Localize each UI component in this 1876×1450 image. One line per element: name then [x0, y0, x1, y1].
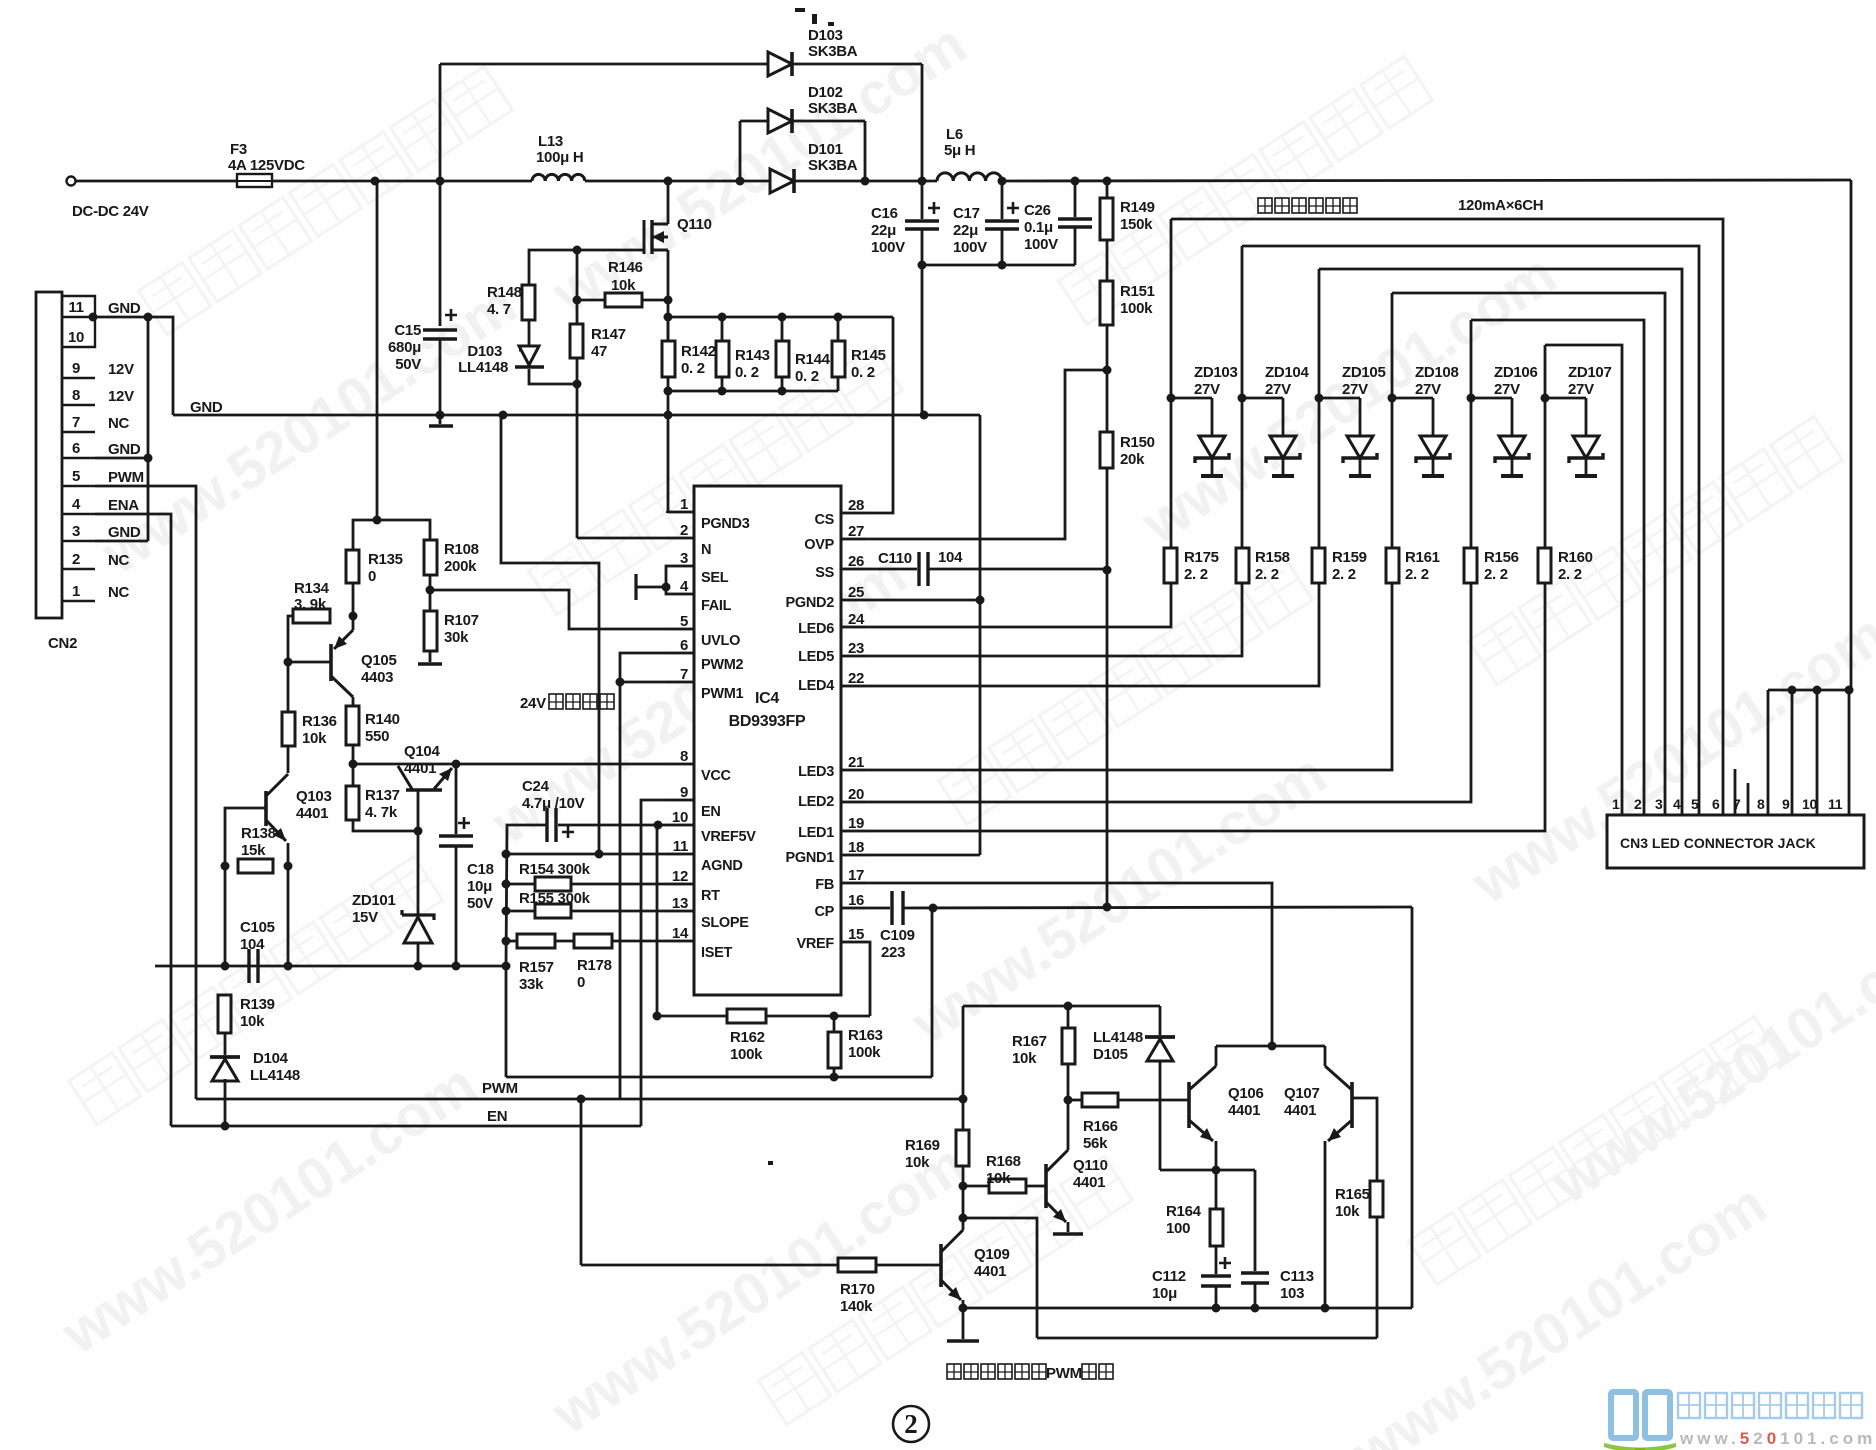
wire R142-R145 bottom rail: [668, 390, 838, 393]
wire comp bus up to CP: [931, 908, 934, 1077]
IC4 pin 11 tick: [666, 853, 694, 855]
junction / bus2 branch: [959, 1214, 968, 1223]
svg-text:FB: FB: [815, 877, 834, 893]
wire channel 2 loop (CN3 pin to ZD): [1242, 246, 1699, 815]
wire R159 to IC LED pin: [842, 583, 1319, 686]
wire C16/C17/C26 bottom rail: [922, 264, 1075, 267]
junction R138 right: [284, 862, 293, 871]
wire R142 top stub: [667, 317, 670, 341]
svg-text:2. 2: 2. 2: [1558, 566, 1582, 583]
svg-text:LED4: LED4: [798, 678, 834, 694]
IC4 pin 27 tick: [841, 538, 866, 540]
wire R146 left: [577, 299, 605, 302]
junction gate / R147 branch: [573, 246, 582, 255]
junction Q104 base / ZD101: [414, 827, 423, 836]
wire Q110 source down: [667, 250, 670, 341]
svg-text:ZD103: ZD103: [1194, 364, 1238, 381]
wire Q105 base: [288, 661, 331, 664]
wire R136 to Q103 collector: [287, 746, 290, 773]
wire top row to D105: [1159, 1006, 1162, 1035]
inductor L6: [937, 173, 1002, 181]
junction main rail / R149: [1103, 177, 1112, 186]
svg-text:23: 23: [848, 640, 864, 657]
junction main rail / Q110 drain: [664, 177, 673, 186]
wire sense rail to IC pin 1: [667, 391, 670, 512]
wire R175 to IC LED pin: [842, 583, 1171, 627]
wire R156 to IC LED pin: [842, 583, 1471, 802]
svg-text:CS: CS: [814, 512, 834, 528]
svg-text:SEL: SEL: [701, 570, 729, 586]
wire D103 to corner: [792, 63, 922, 66]
svg-text:20k: 20k: [1120, 451, 1145, 468]
CN3 pin 7 stub: [1734, 769, 1737, 815]
transistor Q110 4401 (NPN, lower): [1044, 1164, 1048, 1208]
svg-text:4401: 4401: [1284, 1102, 1316, 1119]
svg-text:21: 21: [848, 754, 864, 771]
svg-text:27: 27: [848, 523, 864, 540]
wire L13 to D101: [585, 180, 772, 183]
svg-text:22μ: 22μ: [953, 222, 978, 239]
svg-text:2: 2: [680, 522, 688, 539]
resistor R151 100k: [1100, 281, 1113, 325]
junction R167 top: [1064, 1002, 1073, 1011]
CN2 pin 8 tick: [62, 404, 95, 406]
svg-text:200k: 200k: [444, 558, 477, 575]
wire to IC pin 2 N: [577, 537, 694, 540]
svg-text:3. 9k: 3. 9k: [294, 596, 327, 613]
zener diode ZD108 27V: [1416, 436, 1450, 476]
svg-text:9: 9: [1782, 796, 1790, 812]
wire main rail to right edge: [1002, 180, 1851, 181]
junction ground rail / cap rail: [920, 411, 929, 420]
wire R142 bottom stub: [667, 377, 670, 391]
svg-text:3: 3: [680, 550, 688, 567]
resistor R154 300k: [535, 877, 571, 891]
junction channel 3 / zener: [1315, 394, 1324, 403]
svg-text:5: 5: [1691, 796, 1699, 812]
wire to ZD103: [1171, 397, 1212, 400]
wire R108 to node: [429, 575, 432, 590]
wire R134 to R136: [288, 616, 293, 712]
svg-text:ISET: ISET: [701, 945, 732, 961]
wire R166 left: [1068, 1099, 1082, 1102]
svg-text:5μ H: 5μ H: [944, 142, 975, 159]
junction main rail / C16: [918, 177, 927, 186]
svg-text:R157: R157: [519, 959, 554, 976]
wire VREF5V row: [558, 824, 694, 827]
svg-text:6: 6: [1712, 796, 1720, 812]
resistor R144 0.2: [776, 341, 789, 377]
junction R144 top: [778, 313, 787, 322]
svg-text:ZD108: ZD108: [1415, 364, 1459, 381]
wire ZD103 stub: [1211, 398, 1214, 436]
svg-text:LED5: LED5: [798, 649, 834, 665]
svg-text:R144: R144: [795, 351, 831, 368]
resistor R170 140k: [838, 1258, 876, 1272]
svg-text:223: 223: [881, 944, 905, 961]
wire channel 5 vertical: [1470, 320, 1473, 548]
svg-text:R107: R107: [444, 612, 479, 629]
CN2 pin 1 tick: [62, 600, 95, 602]
wire main rail to R149: [1106, 181, 1109, 198]
wire Q107 base to R165: [1352, 1098, 1377, 1181]
wire R154 to IC pin 12 RT: [571, 883, 694, 886]
svg-text:1: 1: [1612, 796, 1620, 812]
capacitor C24 4.7u/10V: [547, 808, 574, 842]
wire VREF down: [842, 942, 870, 1016]
Q109 emitter arrow: [941, 1280, 961, 1300]
junction R108/R107/UVLO: [426, 586, 435, 595]
svg-text:R165: R165: [1335, 1186, 1370, 1203]
svg-text:12: 12: [672, 868, 688, 885]
wire C17 to bottom rail: [1001, 229, 1004, 265]
wire CN3 pin 11: [1816, 690, 1819, 815]
svg-text:ZD106: ZD106: [1494, 364, 1538, 381]
wire Q103 emitter down: [287, 843, 290, 866]
svg-text:DC-DC 24V: DC-DC 24V: [72, 203, 149, 220]
wire R146 right: [642, 299, 668, 302]
svg-text:11: 11: [68, 299, 83, 316]
junction CP / compensation branch: [929, 904, 938, 913]
svg-text:9: 9: [72, 360, 80, 377]
wire compensation bus: [506, 1076, 932, 1079]
svg-text:C15: C15: [394, 322, 421, 339]
IC4 pin 20 tick: [841, 801, 866, 803]
resistor R107 30k: [424, 611, 437, 651]
svg-text:10μ: 10μ: [467, 878, 492, 895]
junction pin11/pin6 tie: [144, 313, 153, 322]
svg-text:2: 2: [1634, 796, 1642, 812]
wire R154 left: [506, 883, 535, 886]
resistor R145 0.2: [832, 341, 845, 377]
wire R163 bottom stub: [833, 1068, 836, 1077]
svg-text:PWM2: PWM2: [701, 657, 744, 673]
svg-text:EN: EN: [487, 1108, 507, 1125]
wire IC pin 18 PGND1: [842, 854, 980, 857]
fuse F3: [237, 174, 272, 187]
wire node to R107: [429, 590, 432, 611]
svg-text:D103: D103: [467, 343, 502, 360]
svg-text:1: 1: [680, 496, 688, 513]
svg-text:CN3 LED CONNECTOR JACK: CN3 LED CONNECTOR JACK: [1620, 835, 1816, 851]
junction Q109 emitter / bottom bus: [959, 1304, 968, 1313]
capacitor C18 10u 50V: [439, 817, 473, 846]
wire R150 to SS node: [1106, 468, 1109, 570]
svg-text:4401: 4401: [296, 805, 328, 822]
IC4 pin 2 tick: [666, 537, 694, 539]
svg-text:56k: 56k: [1083, 1135, 1108, 1152]
svg-text:D101: D101: [808, 141, 843, 158]
wire Q110 emitter to ground: [1067, 1222, 1070, 1232]
resistor R158 2.2: [1236, 548, 1249, 583]
svg-text:4403: 4403: [361, 669, 393, 686]
svg-text:SLOPE: SLOPE: [701, 915, 749, 931]
zener diode ZD104 27V: [1266, 436, 1300, 476]
junction R169 / R168: [959, 1182, 968, 1191]
wire 24V to divider: [376, 181, 379, 520]
svg-text:6: 6: [680, 637, 688, 654]
IC4 pin 23 tick: [841, 655, 866, 657]
wire to C26: [1074, 181, 1077, 217]
IC4 pin 26 tick: [841, 568, 866, 570]
svg-text:12V: 12V: [108, 388, 134, 405]
svg-text:8: 8: [72, 387, 80, 404]
svg-text:5: 5: [72, 468, 80, 485]
capacitor C26 0.1u 100V: [1058, 219, 1092, 227]
wire AGND row: [506, 853, 694, 856]
wire R135 to node: [352, 583, 355, 616]
svg-text:R158: R158: [1255, 549, 1290, 566]
junction VCC / C18 / Q104 emitter: [452, 760, 461, 769]
IC4 pin 1 tick: [666, 511, 694, 513]
wire Q104 base down: [417, 790, 420, 831]
wire IC pin 26 SS to C110: [842, 568, 917, 571]
svg-text:120mA×6CH: 120mA×6CH: [1458, 197, 1543, 214]
wire D102 branch left vertical: [739, 121, 742, 181]
svg-text:10k: 10k: [1012, 1050, 1037, 1067]
svg-text:LL4148: LL4148: [458, 359, 508, 376]
svg-text:PWM1: PWM1: [701, 686, 744, 702]
inductor L13: [532, 174, 585, 181]
wire to R135: [353, 520, 377, 550]
resistor R166 56k: [1082, 1093, 1118, 1107]
wire Q105 collector to R140: [352, 697, 355, 706]
junction SEL/FAIL: [662, 583, 671, 592]
wire R164 to C112: [1215, 1246, 1218, 1274]
diode D103 SK3BA: [768, 52, 792, 76]
junction ground rail / C15: [436, 411, 445, 420]
svg-text:SK3BA: SK3BA: [808, 43, 858, 60]
junction pin6 GND tie: [144, 454, 153, 463]
junction divider top: [373, 516, 382, 525]
svg-text:2. 2: 2. 2: [1484, 566, 1508, 583]
wire bus2 to R165: [1376, 1217, 1379, 1338]
wire bus2: [1037, 1337, 1377, 1340]
svg-text:12V: 12V: [108, 361, 134, 378]
wire top loop right vertical: [921, 64, 924, 181]
wire PWM bus: [196, 1098, 963, 1101]
svg-text:C112: C112: [1152, 1268, 1186, 1285]
wire channel 2 vertical: [1241, 246, 1244, 548]
IC4 pin 12 tick: [666, 883, 694, 885]
svg-text:R160: R160: [1558, 549, 1593, 566]
svg-text:9: 9: [680, 784, 688, 801]
wire Q104 base node to ZD101: [417, 831, 420, 915]
zener diode ZD103 27V: [1195, 436, 1229, 476]
wire AGND link up to ground rail: [501, 415, 599, 854]
svg-text:680μ: 680μ: [388, 339, 421, 356]
junction bus / Q107 emitter: [1321, 1304, 1330, 1313]
resistor R164 100: [1210, 1209, 1223, 1246]
transistor Q107 4401 (NPN, mirrored): [1350, 1082, 1354, 1128]
resistor R175 2.2: [1164, 548, 1177, 583]
svg-text:ZD105: ZD105: [1342, 364, 1386, 381]
svg-text:18: 18: [848, 839, 864, 856]
wire soft-start top row: [963, 1005, 1160, 1008]
IC4 pin 18 tick: [841, 854, 866, 856]
junction channel 1 / zener: [1167, 394, 1176, 403]
svg-text:50V: 50V: [467, 895, 493, 912]
svg-text:7: 7: [680, 666, 688, 683]
junction R140/R137/VCC wire: [349, 760, 358, 769]
junction pin bus / main right wire: [1845, 686, 1854, 695]
wire ground rail down to PGND1: [979, 415, 982, 855]
wire cap rail down to ground rail: [921, 265, 924, 415]
junction FB / collectors: [1268, 1042, 1277, 1051]
junction C17 bottom: [998, 261, 1007, 270]
svg-text:R163: R163: [848, 1027, 883, 1044]
wire R145 bottom stub: [837, 377, 840, 391]
svg-text:104: 104: [240, 936, 265, 953]
label undervolt detect (Chinese): [549, 694, 614, 709]
svg-text:R147: R147: [591, 326, 626, 343]
svg-text:R136: R136: [302, 713, 337, 730]
svg-text:R139: R139: [240, 996, 275, 1013]
svg-text:15: 15: [848, 926, 864, 943]
wire channel 4 vertical: [1391, 293, 1394, 548]
svg-text:R146: R146: [608, 259, 643, 276]
svg-text:EN: EN: [701, 804, 721, 820]
junction R167/R166/Q110 collector: [1064, 1096, 1073, 1105]
junction main rail / C26: [1071, 177, 1080, 186]
junction rail / C105 right: [284, 962, 293, 971]
ground under C15: [429, 424, 453, 428]
svg-text:R138: R138: [241, 825, 276, 842]
transistor Q109 4401 (NPN): [939, 1244, 943, 1287]
wire R166 to Q106 base: [1118, 1099, 1189, 1102]
svg-text:PWM: PWM: [482, 1080, 518, 1097]
svg-text:OVP: OVP: [804, 537, 834, 553]
junction bus / C112: [1212, 1304, 1221, 1313]
wire D102 to right vertical: [792, 120, 865, 123]
zener diode ZD107 27V: [1569, 436, 1603, 476]
diode D102 SK3BA: [768, 109, 792, 133]
svg-text:PGND3: PGND3: [701, 516, 750, 532]
svg-text:R148: R148: [487, 284, 522, 301]
svg-text:LED6: LED6: [798, 621, 834, 637]
wire Q106/Q107 collector tie: [1216, 1045, 1325, 1048]
wire channel 1 vertical: [1170, 219, 1173, 548]
svg-text:15k: 15k: [241, 842, 266, 859]
svg-text:27V: 27V: [1494, 381, 1520, 398]
svg-text:R178: R178: [577, 957, 612, 974]
wire R148 to D103 diode: [528, 320, 531, 346]
CN2 pin 6 tick: [62, 457, 95, 459]
wire R143 bottom stub: [721, 377, 724, 391]
wire R137 to Q104 base node: [353, 820, 418, 831]
svg-text:100: 100: [1166, 1220, 1190, 1237]
CN2 pin 2 tick: [62, 568, 95, 570]
diode D103 LL4148 (gate clamp): [515, 346, 544, 367]
wire IC pin 16 CP to C109: [842, 907, 890, 910]
junction PWM / Q109 branch: [577, 1095, 586, 1104]
wire C24 left to AGND bus: [506, 825, 547, 966]
Q103 emitter arrow: [266, 820, 286, 841]
wire C15 to ground rail: [439, 339, 442, 415]
svg-text:0. 2: 0. 2: [681, 360, 705, 377]
svg-text:14: 14: [672, 925, 689, 942]
transistor Q105 4403 (PNP): [329, 644, 333, 681]
svg-text:GND: GND: [108, 441, 141, 458]
svg-text:17: 17: [848, 867, 864, 884]
junction Q110 source / R142 rail: [664, 313, 673, 322]
ground under R107: [418, 662, 442, 666]
connector CN3 LED CONNECTOR JACK: [1607, 815, 1864, 868]
svg-text:AGND: AGND: [701, 858, 743, 874]
resistor R160 2.2: [1538, 548, 1551, 583]
svg-text:104: 104: [938, 549, 963, 566]
wire channel 6 loop (CN3 pin to ZD): [1545, 345, 1622, 815]
zener diode ZD105 27V: [1343, 436, 1377, 476]
resistor R142 0.2: [662, 341, 675, 377]
svg-text:1: 1: [72, 583, 80, 600]
svg-text:VCC: VCC: [701, 768, 732, 784]
svg-text:CN2: CN2: [48, 635, 77, 652]
IC4 pin 21 tick: [841, 769, 866, 771]
wire top loop left vertical: [439, 64, 442, 181]
diode D101 SK3BA: [770, 169, 794, 193]
transistor Q103 4401 (NPN): [264, 791, 268, 826]
svg-text:SK3BA: SK3BA: [808, 100, 858, 117]
resistor R147 47: [570, 324, 583, 358]
svg-text:5: 5: [680, 613, 688, 630]
junction R162 left: [653, 1012, 662, 1021]
wire EN bus: [171, 1125, 641, 1128]
wire R160 to IC LED pin: [842, 583, 1545, 831]
svg-text:28: 28: [848, 497, 864, 514]
svg-text:3: 3: [1655, 796, 1663, 812]
wire R147 top: [576, 250, 579, 324]
svg-text:19: 19: [848, 815, 864, 832]
svg-text:Q110: Q110: [1073, 1157, 1108, 1174]
wire R162 left stub: [657, 1015, 727, 1018]
wire EN down to EN bus: [641, 800, 694, 1126]
svg-text:27V: 27V: [1568, 381, 1594, 398]
IC4 pin 24 tick: [841, 626, 866, 628]
wire node to R150: [1106, 370, 1109, 432]
svg-text:4401: 4401: [404, 760, 436, 777]
svg-text:4: 4: [680, 578, 689, 595]
wire R144 bottom stub: [781, 377, 784, 391]
resistor R161 2.2: [1386, 548, 1399, 583]
wire ZD107 stub: [1585, 398, 1588, 436]
svg-text:LED2: LED2: [798, 794, 834, 810]
wire D102 branch right vertical: [864, 121, 867, 181]
svg-text:PGND1: PGND1: [786, 850, 835, 866]
zener diode ZD106 27V: [1495, 436, 1529, 476]
svg-text:4401: 4401: [1073, 1174, 1105, 1191]
junction AGND bus / R155: [502, 907, 511, 916]
junction PWM1/PWM2: [616, 678, 625, 687]
wire R178 to IC pin 14 ISET: [612, 940, 694, 943]
svg-text:100k: 100k: [730, 1046, 763, 1063]
svg-text:C17: C17: [953, 205, 980, 222]
svg-text:140k: 140k: [840, 1298, 873, 1315]
svg-text:100V: 100V: [1024, 236, 1058, 253]
wire Q106 emitter down: [1215, 1141, 1218, 1170]
junction main rail / D102 branch: [736, 177, 745, 186]
wire ZD108 stub: [1432, 398, 1435, 436]
wire R155 to IC pin 13 SLOPE: [571, 910, 694, 913]
svg-text:R151: R151: [1120, 283, 1155, 300]
wire D105 anode down: [1159, 1061, 1162, 1170]
junction Q110 source / R146: [664, 296, 673, 305]
svg-text:D105: D105: [1093, 1046, 1128, 1063]
wire R145 rail to IC pin 28: [842, 317, 893, 513]
wire to C17: [1001, 181, 1004, 219]
wire to ZD108: [1392, 397, 1433, 400]
svg-text:R170: R170: [840, 1281, 875, 1298]
